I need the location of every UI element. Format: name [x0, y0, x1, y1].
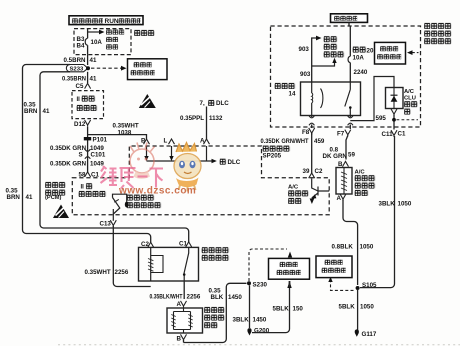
splice pack label 铰接组件 SP205 — [263, 145, 291, 159]
class II serial data dashed box (upper) — [72, 91, 104, 119]
svg-text:2256: 2256 — [115, 269, 129, 276]
junction P101 — [84, 137, 91, 140]
svg-text:0.35PPL: 0.35PPL — [180, 115, 204, 122]
underhood junction box dashed outline — [271, 26, 421, 127]
svg-text:14: 14 — [289, 90, 296, 97]
relay coil (C2 side) — [148, 247, 163, 281]
svg-text:A: A — [177, 301, 182, 308]
wire 0.8BLK 1050 — [332, 200, 374, 286]
svg-text:7,: 7, — [200, 100, 205, 107]
svg-text:DLC: DLC — [216, 100, 229, 107]
svg-text:II: II — [77, 97, 81, 103]
svg-text:SP205: SP205 — [263, 153, 282, 160]
fuse 10A — [85, 29, 102, 55]
PCM internal class II serial data label — [79, 183, 107, 197]
svg-text:1132: 1132 — [209, 115, 223, 122]
splice S105 — [356, 286, 360, 290]
connector C101 — [85, 149, 90, 159]
label A/C CLU 二极管 — [404, 89, 418, 115]
svg-text:459: 459 — [314, 138, 325, 145]
svg-text:A/C: A/C — [288, 185, 299, 191]
dual throttle orifice relay box — [139, 247, 230, 281]
ground distribution box (top right) — [375, 42, 419, 64]
label 双级节流孔继电器 (coil assembly) — [204, 307, 225, 329]
relay coil — [312, 82, 323, 116]
relay switch blade — [345, 82, 352, 116]
svg-text:C5: C5 — [76, 83, 84, 90]
svg-text:S233: S233 — [70, 67, 84, 73]
relay pin connectors (switch side) — [348, 116, 353, 126]
label 双级节流孔电磁线圈 — [127, 194, 155, 200]
PCM pin A — [204, 139, 210, 144]
svg-text:0.35DK GRN: 0.35DK GRN — [50, 160, 87, 167]
pin F8 — [309, 128, 315, 135]
connector D12 — [85, 120, 91, 127]
svg-text:S105: S105 — [362, 282, 377, 289]
svg-text:A/C: A/C — [355, 169, 366, 175]
svg-text:(PCM): (PCM) — [45, 195, 62, 201]
PCM dashed boundary — [72, 146, 329, 215]
connector C11 C1 — [391, 130, 397, 137]
svg-text:DK GRN: DK GRN — [323, 153, 348, 160]
dashed arrow S233 to power distribution — [91, 66, 127, 71]
pin 58 C1 into PCM — [85, 172, 91, 177]
svg-text:0.8BLK: 0.8BLK — [332, 243, 354, 250]
wire 0.35BLK/WHT 2256 — [150, 281, 201, 300]
svg-text:S: S — [79, 151, 83, 158]
svg-text:3BLK: 3BLK — [379, 200, 396, 207]
wire 5BLK 150 G200 to box1 — [252, 281, 303, 333]
coil assembly pin A — [181, 301, 187, 308]
svg-text:41: 41 — [90, 76, 97, 83]
svg-text:www.dzsc.com: www.dzsc.com — [118, 186, 196, 197]
wire 0.35DK GRN/WHT 459 — [261, 116, 325, 174]
svg-text:10A: 10A — [91, 39, 103, 46]
svg-text:2240: 2240 — [354, 69, 368, 76]
watermark mascot A — [130, 143, 155, 179]
svg-text:41: 41 — [43, 108, 50, 115]
svg-text:59: 59 — [348, 152, 355, 159]
relay switch blade (C1 side) — [183, 247, 189, 281]
svg-text:C1: C1 — [398, 130, 406, 137]
svg-text:903: 903 — [299, 46, 310, 53]
label 发动机罩内辅助设备接线盒 — [424, 23, 452, 45]
A/C clutch coil pin A — [340, 194, 346, 201]
svg-text:0.35WHT: 0.35WHT — [85, 269, 111, 276]
PCM label 动力控制模块(PCM) — [45, 182, 66, 201]
svg-text:D12: D12 — [74, 121, 86, 128]
svg-text:150: 150 — [293, 305, 304, 312]
wire down from D12 — [87, 127, 89, 172]
connector C5 — [85, 83, 91, 88]
wire 595 and A/C CLU diode feed — [350, 77, 394, 122]
svg-text:RUN: RUN — [105, 18, 119, 25]
PCM pin B — [144, 139, 150, 144]
A/C compressor control transistor inside PCM — [310, 179, 330, 205]
svg-text:C101: C101 — [91, 151, 106, 158]
dual throttle coil assembly box — [167, 308, 203, 333]
PCM internal DLC bus — [144, 146, 240, 166]
svg-text:CLU: CLU — [404, 95, 416, 101]
label A/C压缩机控制 — [288, 185, 309, 204]
svg-text:10A: 10A — [353, 55, 365, 62]
svg-text:A: A — [337, 195, 342, 202]
watermark mascot B — [174, 143, 201, 192]
left wire 0.35 BRN 41 (inner, to C1) — [24, 72, 189, 242]
label A/C压缩机离合器线圈 — [355, 169, 376, 196]
A/C CLU diode box — [386, 88, 404, 109]
svg-text:0.5BRN: 0.5BRN — [64, 57, 87, 64]
always powered label box 一直供电 — [331, 14, 368, 23]
splice S230 — [247, 281, 251, 285]
svg-text:BRN: BRN — [7, 194, 21, 201]
svg-text:C13: C13 — [100, 220, 112, 227]
wire 903 with arrows to power distribution — [299, 36, 345, 82]
dashed wire S230 up-right with arrow — [249, 249, 292, 281]
left wire 0.35 BRN 41 (outer, to C2) — [6, 65, 151, 243]
wire 5BLK 1050 to G117 — [339, 290, 375, 330]
relay pin connectors (coil side) — [309, 116, 314, 126]
pin F7 — [345, 130, 351, 137]
wire 0.5BRN 41 — [87, 55, 89, 65]
node 7 至DLC (top) — [200, 100, 230, 108]
svg-text:2256: 2256 — [187, 293, 201, 300]
wire 0.35BRN 41 — [87, 72, 89, 83]
solenoid driver glyph inside PCM — [113, 194, 129, 221]
svg-text:G117: G117 — [362, 331, 377, 338]
wire 3BLK 1050 (tall right) — [360, 136, 412, 288]
svg-text:II: II — [81, 184, 85, 190]
arrow to power distribution (inside fuse box) — [88, 29, 125, 49]
svg-text:1050: 1050 — [360, 303, 374, 310]
svg-text:A: A — [200, 138, 205, 145]
svg-text:1450: 1450 — [253, 316, 267, 323]
svg-text:41: 41 — [90, 57, 97, 64]
svg-text:1050: 1050 — [360, 243, 374, 250]
svg-text:903: 903 — [300, 71, 311, 78]
wire 0.35PPL 1132 from DLC — [206, 107, 208, 140]
PCM pin 39 C2 — [309, 173, 315, 178]
wire 0.35WHT 1038 to pin B — [88, 123, 147, 139]
coil assembly pin B — [181, 334, 187, 341]
svg-text:41: 41 — [26, 194, 33, 201]
wire 0.35 BLK 1450 loop — [184, 283, 247, 342]
svg-text:S230: S230 — [253, 281, 268, 288]
svg-text:C11: C11 — [382, 131, 394, 138]
ESD symbol upper — [139, 94, 156, 108]
ground distribution box1 (bottom) — [269, 258, 310, 279]
ground G200 — [247, 328, 269, 336]
bottom faint dotted artifact line — [58, 344, 460, 346]
PCM pin L — [169, 139, 175, 144]
svg-text:1038: 1038 — [118, 129, 132, 136]
svg-text:C1: C1 — [179, 240, 187, 247]
fuse box label 熔丝盒 — [134, 30, 155, 36]
svg-text:DLC: DLC — [228, 159, 241, 166]
power distribution box — [128, 59, 168, 80]
svg-text:0.35BLK/WHT: 0.35BLK/WHT — [150, 293, 183, 300]
svg-text:G200: G200 — [254, 328, 270, 335]
dashed wire S105 to ground distribution box2 — [328, 277, 353, 291]
ESD symbol lower — [53, 205, 69, 219]
diode lower wire to C11 C1 — [391, 109, 418, 130]
svg-text:L: L — [164, 138, 168, 145]
svg-text:A/C: A/C — [404, 89, 415, 95]
ground distribution box2 (bottom) — [316, 256, 352, 278]
svg-text:P101: P101 — [93, 137, 108, 144]
relay 14 box — [275, 82, 361, 116]
A/C clutch coil pin B — [343, 161, 349, 166]
svg-text:0.35BRN: 0.35BRN — [62, 76, 86, 83]
splice S233 — [66, 65, 90, 73]
fuse box dashed outline — [74, 29, 131, 55]
svg-text:BRN: BRN — [24, 108, 38, 115]
ignition RUN power label box — [69, 16, 143, 25]
svg-text:F7: F7 — [337, 131, 345, 138]
svg-text:20: 20 — [367, 47, 374, 54]
watermark text 维库一下 — [101, 166, 164, 189]
svg-text:F8: F8 — [302, 129, 310, 136]
svg-text:1450: 1450 — [228, 294, 242, 301]
svg-text:C2: C2 — [315, 168, 323, 175]
svg-text:BLK: BLK — [211, 294, 224, 301]
A/C compressor clutch coil box — [336, 168, 352, 195]
wire 0.35WHT 2256 from C13 — [85, 220, 151, 286]
svg-text:3BLK: 3BLK — [233, 316, 250, 323]
wire 0.8 DK GRN 59 from F7 — [323, 116, 356, 160]
svg-text:B: B — [177, 335, 182, 342]
svg-text:5BLK: 5BLK — [339, 303, 356, 310]
svg-text:5BLK: 5BLK — [273, 305, 290, 312]
svg-text:39: 39 — [303, 168, 310, 175]
fuse 20 10A — [348, 22, 374, 82]
wire 3BLK 1450 S230 to G200 — [233, 285, 267, 328]
svg-text:1049: 1049 — [90, 160, 104, 167]
svg-text:595: 595 — [376, 115, 387, 122]
svg-text:1050: 1050 — [398, 200, 412, 207]
svg-text:0.35DK GRN/WHT: 0.35DK GRN/WHT — [261, 138, 309, 145]
ground G117 — [355, 329, 377, 337]
svg-text:B: B — [141, 138, 146, 145]
svg-text:B4: B4 — [77, 43, 85, 50]
throttle relay pins C2 C1 — [148, 242, 154, 247]
